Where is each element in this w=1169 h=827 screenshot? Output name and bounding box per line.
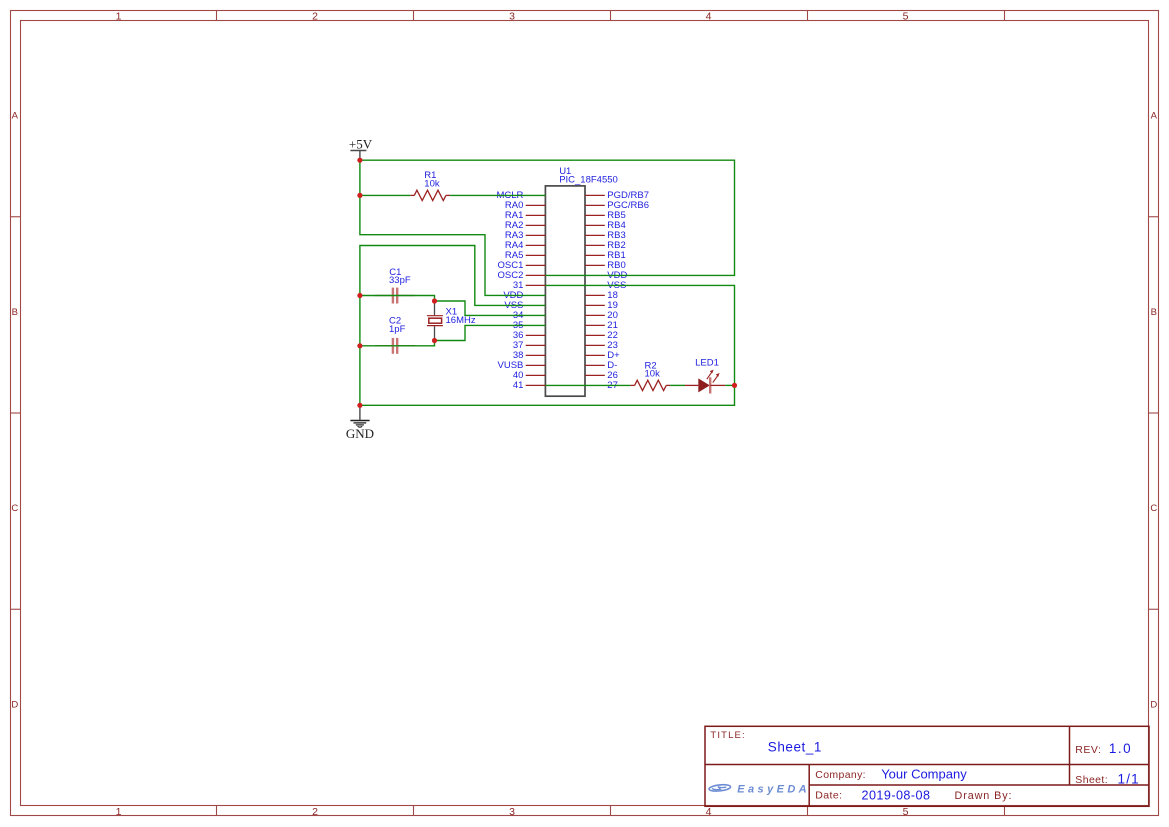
junction crystal top [432, 298, 437, 303]
svg-text:PIC_18F4550: PIC_18F4550 [559, 175, 618, 186]
wire rail to C1 to crystal top [360, 296, 435, 302]
U1 right pin VSS [607, 280, 626, 291]
svg-text:REV:: REV: [1075, 744, 1101, 756]
op-amp U1 body (IC PIC_18F4550) [545, 186, 585, 396]
wire U1 right VSS to GND bottom rail [360, 285, 735, 405]
U1 left pin 31 [513, 280, 546, 291]
svg-text:C: C [1150, 503, 1157, 514]
wire crystal bottom to U1 pin 35 [435, 325, 546, 340]
U1 left pin 35 [513, 320, 524, 331]
wire R2 to LED1 [670, 384, 685, 386]
svg-text:Sheet:: Sheet: [1075, 774, 1108, 786]
U1 left pin VSS [504, 300, 523, 311]
svg-text:1: 1 [116, 806, 122, 818]
U1 left pin 41 [513, 380, 546, 391]
U1 left pin 36 [513, 330, 546, 341]
svg-text:B: B [1151, 307, 1157, 318]
U1 left pin 34 [513, 310, 524, 321]
svg-text:C: C [11, 503, 18, 514]
svg-text:1pF: 1pF [389, 324, 406, 335]
svg-text:2: 2 [312, 11, 318, 23]
capacitor C2 [375, 338, 415, 354]
U1 right pin 20 [585, 310, 618, 321]
wire LED1 to right rail [725, 384, 734, 386]
svg-text:Your Company: Your Company [881, 767, 967, 782]
U1 right pin 23 [585, 340, 618, 351]
svg-text:2019-08-08: 2019-08-08 [862, 788, 931, 802]
U1 left pin RA2 [505, 220, 545, 231]
frame row ticks right [1149, 217, 1159, 610]
U1 left pin RA3 [505, 230, 545, 241]
junction GND rail bottom [357, 403, 362, 408]
svg-text:D: D [11, 700, 18, 711]
svg-text:+5V: +5V [349, 137, 373, 152]
U1 right pin 27 [607, 380, 618, 391]
U1 left pin MCLR [496, 190, 523, 201]
title block row line [705, 764, 1149, 766]
svg-text:B: B [12, 307, 18, 318]
U1 right pin PGC/RB6 [585, 200, 649, 211]
U1 left pin RA1 [505, 210, 545, 221]
frame row letters left [11, 111, 18, 711]
U1 right pin PGD/RB7 [585, 190, 649, 201]
junction C1 / GND rail [357, 293, 362, 298]
svg-text:D: D [1150, 700, 1157, 711]
wire rail to R1 [360, 194, 410, 196]
wire rail to C2 to crystal bottom [360, 341, 435, 346]
svg-text:1/1: 1/1 [1118, 771, 1140, 786]
EasyEDA logo [709, 783, 810, 795]
U1 right pin RB3 [585, 230, 626, 241]
svg-text:41: 41 [513, 380, 524, 391]
svg-text:5: 5 [903, 806, 909, 818]
U1 right pin 26 [585, 370, 618, 381]
svg-text:A: A [1151, 111, 1158, 122]
junction LED1 / right rail [732, 383, 737, 388]
svg-text:Drawn By:: Drawn By: [955, 790, 1013, 802]
U1 right pin RB0 [585, 260, 626, 271]
wire +5V rail down to U1 left VDD [360, 160, 546, 295]
svg-text:2: 2 [312, 806, 318, 818]
svg-text:EasyEDA: EasyEDA [737, 783, 810, 795]
node +5V rail top [357, 158, 362, 163]
U1 left pin VUSB [498, 360, 546, 371]
wire crystal top to U1 pin 34 [435, 301, 546, 315]
junction R1 / +5V rail [357, 193, 362, 198]
svg-text:Date:: Date: [815, 790, 842, 802]
U1 left pin 40 [513, 370, 546, 381]
U1 right pin 22 [585, 330, 618, 341]
svg-text:LED1: LED1 [695, 358, 719, 369]
U1 right pin D+ [585, 350, 620, 361]
U1 right pin VDD [607, 270, 627, 281]
frame column numbers top [116, 11, 909, 23]
title block outline [705, 726, 1149, 806]
U1 left pin 38 [513, 350, 546, 361]
frame column numbers bottom [116, 806, 909, 818]
svg-text:10k: 10k [645, 369, 661, 380]
svg-text:Sheet_1: Sheet_1 [768, 739, 822, 754]
svg-text:1: 1 [116, 11, 122, 23]
U1 right pin 21 [585, 320, 618, 331]
U1 left pin OSC1 [498, 260, 546, 271]
ground GND symbol [346, 405, 374, 441]
frame row ticks left [11, 217, 21, 610]
U1 right pin RB5 [585, 210, 626, 221]
junction C2 / GND rail [357, 343, 362, 348]
U1 left pin RA0 [505, 200, 545, 211]
U1 left pin OSC2 [498, 270, 546, 281]
frame column ticks top [217, 11, 1005, 21]
svg-text:5: 5 [903, 11, 909, 23]
U1 left pin RA4 [505, 240, 545, 251]
resistor R2 [630, 380, 670, 390]
svg-text:A: A [12, 111, 19, 122]
U1 right pin RB1 [585, 250, 626, 261]
U1 right pin RB4 [585, 220, 626, 231]
U1 left pin RA5 [505, 250, 545, 261]
U1 left pin VDD [503, 290, 523, 301]
title block company/date divider [809, 784, 1149, 786]
title block rev cell divider [1069, 726, 1071, 785]
junction crystal bottom [432, 338, 437, 343]
svg-text:TITLE:: TITLE: [710, 730, 745, 741]
wire GND rail up to U1 left VSS [360, 246, 546, 406]
wire U1 pin 27 to R2 [545, 384, 630, 386]
crystal X1 [427, 301, 443, 341]
U1 right pin RB2 [585, 240, 626, 251]
U1 right pin D- [585, 360, 617, 371]
svg-text:3: 3 [509, 806, 515, 818]
svg-text:Company:: Company: [815, 769, 866, 781]
frame column ticks bottom [217, 806, 1005, 816]
capacitor C1 [375, 288, 415, 304]
U1 left pin 37 [513, 340, 546, 351]
U1 right pin 19 [585, 300, 618, 311]
title block logo cell divider [808, 765, 810, 807]
svg-text:4: 4 [706, 11, 712, 23]
svg-text:33pF: 33pF [389, 275, 411, 286]
svg-text:16MHz: 16MHz [446, 315, 476, 326]
svg-text:GND: GND [346, 426, 374, 441]
svg-text:3: 3 [509, 11, 515, 23]
wire +5V rail top to U1 right VDD [360, 160, 735, 275]
svg-text:10k: 10k [424, 179, 440, 190]
U1 right pin 18 [585, 290, 618, 301]
LED LED1 [685, 370, 725, 394]
frame row letters right [1150, 111, 1157, 711]
+5V net flag [349, 137, 373, 161]
wire R1 to U1 MCLR [450, 194, 545, 196]
svg-text:4: 4 [706, 806, 712, 818]
resistor R1 [410, 190, 450, 200]
svg-text:1.0: 1.0 [1109, 741, 1132, 756]
